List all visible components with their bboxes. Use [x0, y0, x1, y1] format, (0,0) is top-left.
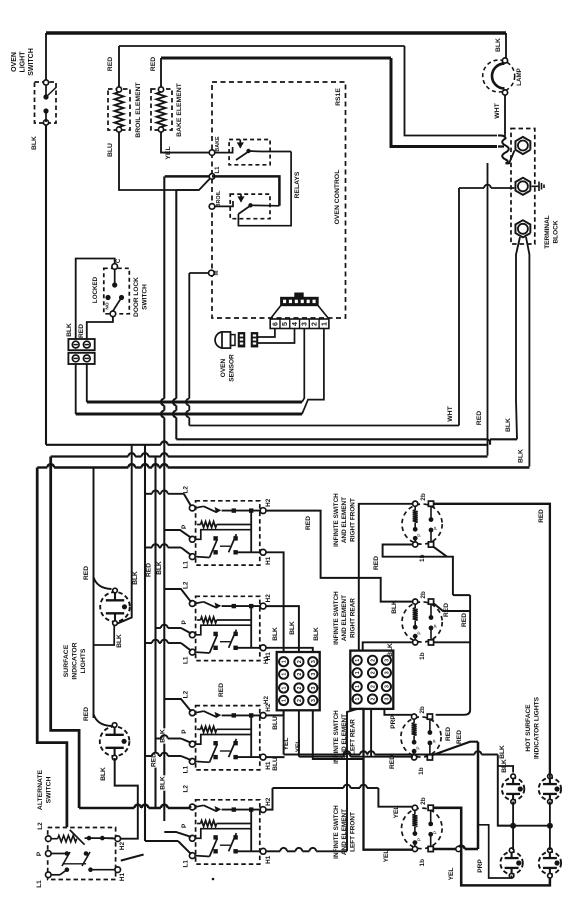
svg-text:BLK: BLK [313, 627, 320, 641]
svg-text:M: M [214, 271, 220, 276]
svg-text:YEL: YEL [383, 850, 390, 863]
indicator light hot surface 3 [500, 852, 522, 874]
svg-text:P: P [432, 739, 438, 742]
wire: RF top-left to plug B col1 [359, 504, 413, 651]
svg-text:HOT SURFACE: HOT SURFACE [525, 704, 532, 752]
wire: lamp top [505, 33, 507, 58]
wire: SW2 L2 feed [164, 589, 191, 602]
svg-text:1b: 1b [418, 767, 425, 775]
oven control connector body [281, 298, 318, 306]
infinite switch LEFT FRONT [196, 800, 260, 864]
svg-text:H1: H1 [119, 872, 126, 881]
contact pair (LEFT REAR) [213, 741, 217, 745]
svg-text:1: 1 [355, 698, 361, 701]
svg-text:BLU: BLU [107, 143, 114, 157]
bus: VB3 BLK (x=164.3) [163, 445, 165, 821]
oven light switch S1 [35, 82, 57, 123]
contact pair (RIGHT FRONT) [213, 632, 217, 636]
door lock switch S2 [104, 268, 130, 314]
svg-text:L1: L1 [183, 561, 190, 569]
terminal 2b (left front) [412, 805, 417, 810]
terminal 1b (right front) [413, 542, 418, 547]
svg-text:3: 3 [384, 659, 390, 662]
svg-text:L2: L2 [183, 785, 190, 793]
wire: terminal 3 split leads [516, 237, 520, 439]
svg-text:SURFACE: SURFACE [63, 644, 70, 677]
wire: LR 1b diagonal to thick riser [433, 742, 478, 755]
svg-text:AND ELEMENT: AND ELEMENT [341, 595, 348, 641]
svg-text:4: 4 [292, 322, 299, 326]
svg-text:P: P [36, 851, 43, 856]
svg-text:L2: L2 [183, 690, 190, 698]
svg-text:BLK: BLK [159, 776, 166, 790]
svg-text:2: 2 [371, 698, 377, 701]
svg-text:YEL: YEL [448, 868, 455, 881]
wire: plug 3 drop [302, 329, 304, 403]
svg-text:TERMINAL: TERMINAL [544, 215, 551, 249]
wire: plug 1 drop [302, 329, 324, 415]
ground symbol [532, 185, 540, 187]
svg-text:P: P [417, 631, 423, 634]
connector block plug A [277, 652, 320, 710]
bus: BLK lower (y=467.5) [37, 466, 47, 468]
wire: connector to black bus [75, 364, 77, 414]
svg-text:LIGHTS: LIGHTS [80, 648, 87, 673]
svg-text:BLU: BLU [272, 716, 279, 730]
svg-text:RED: RED [389, 755, 396, 769]
svg-text:BLK: BLK [499, 745, 506, 759]
svg-text:RED: RED [107, 57, 114, 71]
surface element left front [402, 808, 443, 849]
svg-text:H2: H2 [265, 797, 272, 806]
svg-text:P: P [433, 831, 439, 834]
terminal 1b (left rear) [412, 755, 417, 760]
svg-text:BLK: BLK [156, 561, 163, 575]
wire: RR bottom-right stub [434, 641, 471, 643]
wire: bake feed drop x=391 [391, 58, 497, 147]
svg-text:L2: L2 [37, 822, 44, 830]
wire: surface light 1 bottom down [94, 625, 115, 646]
wire: LF 1b thick chain [433, 848, 458, 851]
svg-text:BLK: BLK [495, 38, 502, 52]
terminal 1b (left front) [412, 846, 417, 851]
svg-text:1: 1 [321, 322, 328, 326]
svg-text:L2: L2 [183, 581, 190, 589]
svg-text:P: P [181, 729, 188, 734]
bus: WHT return (y=425.5) [189, 425, 459, 427]
wire: WHT drop [458, 188, 460, 426]
infinite switch RIGHT FRONT [196, 596, 260, 660]
wire: plug B col2 drop [370, 709, 372, 757]
svg-text:2: 2 [297, 699, 303, 702]
svg-text:RELAYS: RELAYS [294, 171, 301, 198]
svg-text:P: P [181, 619, 188, 624]
svg-text:5: 5 [282, 322, 289, 326]
svg-text:2: 2 [297, 686, 303, 689]
wire: bake feed (y=58) [161, 57, 391, 60]
wire: door lock NO lead [87, 317, 113, 339]
indicator light hot surface 4 [539, 852, 561, 874]
wire: SW2 L1 feed [145, 642, 152, 644]
svg-text:3: 3 [311, 660, 317, 663]
oven control plug P1 [270, 319, 329, 329]
contact row to H2 (RIGHT FRONT) [222, 605, 261, 607]
wire: SW1 P feed [164, 530, 191, 538]
svg-text:L2: L2 [183, 486, 190, 494]
surface element left rear [401, 717, 441, 757]
svg-text:SWITCH: SWITCH [46, 777, 53, 804]
indicator light hot surface 1 [502, 778, 524, 800]
svg-text:BLK: BLK [501, 759, 508, 773]
wire: SW1 L2 feed [145, 493, 152, 495]
svg-text:INFINITE SWITCH: INFINITE SWITCH [333, 591, 340, 645]
alt switch resistor [51, 838, 58, 840]
element sensor column (left front) [430, 810, 432, 824]
svg-text:L1: L1 [36, 880, 43, 888]
svg-text:RED: RED [83, 707, 90, 721]
wire: branch to surface light 1 [94, 577, 112, 589]
internal bridge (RIGHT FRONT) [250, 606, 252, 648]
lamp DS1 (oven lamp) [483, 60, 515, 92]
svg-text:2b: 2b [419, 706, 426, 714]
svg-text:BLK: BLK [100, 767, 107, 781]
wire: broil bottom to L1 node [119, 132, 212, 190]
switch blade (RIGHT FRONT) [195, 602, 203, 604]
wire: broil top lead [118, 46, 120, 87]
wire: terminal 1 strain loops [498, 135, 509, 163]
wire: RR 2b right diagonal [434, 603, 471, 611]
svg-text:BLK: BLK [391, 600, 398, 614]
alt switch middle contacts [65, 851, 70, 856]
wire L1 row (RIGHT FRONT) [195, 651, 209, 654]
svg-text:P: P [433, 624, 439, 627]
svg-text:3: 3 [384, 671, 390, 674]
oven control box (RS1E) [212, 82, 346, 318]
svg-text:RED: RED [305, 516, 312, 530]
svg-text:P: P [417, 533, 423, 536]
svg-text:RS1E: RS1E [335, 88, 342, 106]
svg-text:2b: 2b [420, 797, 427, 805]
stray dot [212, 878, 215, 881]
wire: terminal 2 lead (WHT) [459, 187, 484, 189]
pilot tap from P (RIGHT REAR) [195, 530, 251, 540]
svg-text:BLK: BLK [66, 323, 73, 337]
alt switch bottom contacts [65, 867, 70, 872]
wire: L1 bus drop (x=164.8) [163, 176, 165, 398]
svg-text:BLOCK: BLOCK [552, 220, 559, 243]
svg-text:INFINITE SWITCH: INFINITE SWITCH [333, 710, 340, 764]
bus: staircase B to SW4 L2 (y=808) [79, 807, 134, 810]
svg-text:RED: RED [445, 727, 452, 741]
svg-text:H2: H2 [119, 841, 126, 850]
infinite switch LEFT REAR [196, 706, 260, 770]
terminal 2b (left rear) [412, 714, 417, 719]
pilot resistor (LEFT FRONT) [197, 823, 201, 825]
svg-text:OVEN: OVEN [11, 52, 18, 72]
svg-text:SWITCH: SWITCH [28, 48, 35, 76]
bus: VB1 (x=145) [144, 445, 146, 841]
door lock connector pair [68, 339, 94, 350]
wire: RF bottom-left RED chain [383, 545, 453, 596]
svg-text:OVEN CONTROL: OVEN CONTROL [334, 170, 341, 225]
svg-text:C: C [116, 258, 122, 263]
svg-text:LAMP: LAMP [516, 68, 523, 86]
svg-text:RED: RED [443, 603, 450, 617]
svg-text:INDICATOR LIGHTS: INDICATOR LIGHTS [533, 696, 540, 759]
svg-text:INFINITE SWITCH: INFINITE SWITCH [333, 493, 340, 547]
svg-text:2: 2 [371, 659, 377, 662]
svg-text:BROIL: BROIL [216, 190, 222, 207]
wire: left staircase A [37, 468, 67, 828]
label BLK (VB3 mid) [159, 728, 169, 743]
svg-text:P: P [433, 526, 439, 529]
svg-text:RED: RED [373, 556, 380, 570]
wire: SW4 L1 feed [145, 840, 178, 842]
svg-text:LOCKED: LOCKED [92, 276, 99, 303]
label RED (VB2 lower) [151, 752, 161, 767]
svg-text:1b: 1b [419, 859, 426, 867]
junction dot B [547, 823, 553, 829]
svg-text:P: P [416, 838, 422, 841]
svg-text:2: 2 [371, 671, 377, 674]
bus: broil row to red (y=439.3) [176, 439, 490, 445]
indicator light surface 1 [100, 592, 130, 622]
svg-text:INDICATOR: INDICATOR [72, 642, 79, 679]
relay K1 (bake) [229, 140, 270, 165]
svg-text:1: 1 [282, 699, 288, 702]
svg-text:RIGHT REAR: RIGHT REAR [349, 598, 356, 638]
wire: plug 4 to oven sensor [258, 329, 295, 344]
svg-text:L1: L1 [183, 860, 190, 868]
svg-text:DOOR LOCK: DOOR LOCK [133, 277, 140, 317]
wire: plug A col2 to LR 1b row [298, 710, 300, 756]
contact row to H2 (RIGHT REAR) [222, 510, 261, 512]
wire: RED drop from terminal block [487, 163, 489, 456]
terminal 1b (right rear) [413, 640, 418, 645]
svg-text:AND ELEMENT: AND ELEMENT [341, 497, 348, 543]
svg-text:H2: H2 [263, 695, 270, 703]
svg-text:PRP: PRP [477, 859, 484, 873]
terminal 2b (right rear) [413, 599, 418, 604]
svg-text:RED: RED [461, 613, 468, 627]
bus: oven harness (y=402) [87, 401, 302, 404]
wire: SW2 H1 into plug A col3 [266, 648, 313, 652]
svg-text:2: 2 [371, 685, 377, 688]
wire: hot light col B [549, 772, 551, 778]
wire: SW3 L1 feed [145, 755, 152, 757]
wire L1 row (LEFT REAR) [195, 760, 209, 763]
svg-text:RED: RED [218, 683, 225, 697]
svg-text:P: P [181, 524, 188, 529]
svg-text:BAKE: BAKE [215, 136, 221, 152]
svg-text:BAKE ELEMENT: BAKE ELEMENT [176, 82, 183, 136]
wire: RED drop to LR element [453, 594, 470, 596]
switch blade (LEFT FRONT) [195, 805, 203, 807]
bus: BLK main (y=444.8) [46, 444, 161, 446]
wire: plug A col1 to light feed row [283, 710, 285, 754]
svg-text:3: 3 [311, 699, 317, 702]
pilot tap from P (RIGHT FRONT) [195, 625, 251, 635]
wire: RR bottom-left to plug B [363, 642, 413, 650]
contact pair (RIGHT REAR) [213, 536, 217, 540]
svg-text:1: 1 [355, 659, 361, 662]
svg-text:H1: H1 [263, 655, 270, 663]
wire: oven light switch top [45, 33, 47, 80]
bus: oven harness (y=414) [76, 413, 302, 416]
svg-text:ALTERNATE: ALTERNATE [37, 769, 44, 810]
wire L1 row (LEFT FRONT) [195, 855, 209, 858]
svg-text:2: 2 [312, 322, 319, 326]
svg-text:BLK: BLK [116, 634, 123, 648]
wire: lamp bottom (WHT) [504, 95, 506, 133]
svg-text:H1: H1 [265, 556, 272, 565]
element coil (left rear) [413, 719, 415, 723]
svg-text:BLK: BLK [272, 627, 279, 641]
switch blade (RIGHT REAR) [195, 506, 203, 508]
svg-text:2b: 2b [420, 493, 427, 501]
svg-text:SWITCH: SWITCH [141, 284, 148, 310]
svg-text:OVEN: OVEN [220, 358, 227, 377]
svg-text:PRP: PRP [390, 715, 397, 729]
indicator light hot surface 2 [539, 778, 561, 800]
element coil (left front) [414, 810, 416, 814]
pilot tap from P (LEFT FRONT) [195, 829, 251, 839]
wire: SW1 H1 chain [266, 552, 284, 652]
wire: SW3 L2 feed [164, 699, 191, 712]
internal bridge (RIGHT REAR) [250, 511, 252, 553]
svg-text:P: P [416, 746, 422, 749]
contact pair (LEFT FRONT) [213, 835, 217, 839]
surface element right rear [402, 602, 442, 642]
label BLK (VB3 lower) [159, 775, 169, 790]
internal bridge (LEFT FRONT) [250, 810, 252, 852]
wire: bake top lead [160, 58, 162, 87]
svg-text:L1: L1 [183, 765, 190, 773]
svg-text:NO: NO [105, 302, 111, 309]
wire: RF 2b to RED riser [434, 504, 550, 775]
svg-text:1: 1 [355, 685, 361, 688]
switch blade (LEFT REAR) [195, 711, 203, 713]
wire: broil feed drop x=404.5 [405, 46, 498, 136]
svg-text:3: 3 [384, 685, 390, 688]
wire: SW2 H2 chain [266, 606, 299, 652]
svg-text:YEL: YEL [283, 738, 290, 751]
wire: plug A col3 short row [313, 710, 364, 759]
wire: SW4 P feed [164, 832, 191, 837]
wire: plug B col3 to LR top-left [384, 709, 411, 715]
wire: surface light 1 bottom to BLK riser [118, 445, 132, 624]
wire: connector to red bus [86, 364, 88, 402]
wire: SW1 H2 chain to RR top-left [266, 511, 413, 602]
svg-text:2: 2 [297, 660, 303, 663]
svg-text:BLU: BLU [272, 757, 279, 771]
broil element R-broil [108, 89, 130, 130]
svg-text:RED: RED [456, 730, 463, 744]
bus: RED main (y=456.5) [51, 455, 129, 457]
svg-text:2: 2 [297, 673, 303, 676]
element sensor column (right front) [430, 506, 432, 519]
svg-text:BLK: BLK [505, 418, 512, 432]
wire: red feed to surface lights [93, 468, 95, 719]
pilot resistor (RIGHT REAR) [197, 524, 201, 526]
connector block plug B [350, 651, 393, 709]
svg-text:L1: L1 [215, 166, 221, 174]
svg-text:RED: RED [476, 411, 483, 425]
svg-text:RED: RED [83, 566, 90, 580]
wire: SW1 L1 feed [145, 547, 152, 549]
svg-text:6: 6 [272, 322, 279, 326]
svg-text:RED: RED [78, 324, 85, 338]
svg-text:WHT: WHT [447, 405, 454, 421]
element sensor column (right rear) [430, 604, 432, 617]
svg-text:BLK: BLK [289, 621, 296, 635]
element sensor column (left rear) [429, 719, 431, 732]
svg-text:1: 1 [282, 673, 288, 676]
relay K2 (broil) [230, 194, 270, 219]
wire: M lead to WHT bus [189, 272, 208, 274]
svg-text:L1: L1 [183, 656, 190, 664]
node L1 (oven control) [209, 174, 215, 180]
wire: broil-row drop (x=176.3) [176, 189, 199, 191]
wire: broil feed (y=46) [119, 45, 405, 47]
wire: hot light 1 riser [498, 766, 513, 773]
svg-text:LIGHT: LIGHT [20, 51, 27, 73]
svg-text:RED: RED [538, 509, 545, 523]
wire: junction bar [498, 825, 550, 827]
wire L1 row (RIGHT REAR) [195, 556, 209, 559]
alt switch blade [70, 830, 85, 845]
wire: top feed L1 (y=33) [46, 31, 506, 34]
svg-text:3: 3 [384, 698, 390, 701]
wire: plug 6 to oven sensor [258, 329, 275, 338]
alternate switch S3 [48, 828, 116, 880]
bus: VB2 RED (x=155.5) [154, 457, 156, 809]
element coil (right rear) [414, 604, 416, 608]
contact row to H2 (LEFT FRONT) [222, 809, 261, 811]
svg-text:SENSOR: SENSOR [228, 354, 235, 382]
svg-text:3: 3 [311, 673, 317, 676]
svg-text:1: 1 [282, 660, 288, 663]
svg-text:H2: H2 [265, 498, 272, 507]
node M (oven control) [209, 270, 215, 276]
leader line (alt switch) [121, 855, 144, 861]
internal bridge (LEFT REAR) [250, 715, 252, 757]
wire: bake bottom to BAKE relay terminal [161, 132, 210, 153]
svg-text:H2: H2 [265, 594, 272, 603]
svg-text:1b: 1b [419, 652, 426, 660]
surface element right front [402, 504, 442, 544]
wire: surface light 2 bottom to alt switch H2 [115, 758, 138, 839]
contact row to H2 (LEFT REAR) [222, 714, 261, 716]
svg-text:H1: H1 [265, 855, 272, 864]
svg-text:WHT: WHT [494, 102, 501, 118]
svg-text:1: 1 [282, 686, 288, 689]
wire: SW4 H1 chain [266, 850, 280, 852]
wire: SW4 H2 chain to LF top-left [266, 788, 273, 810]
wire: oven light switch to black bus [45, 125, 47, 445]
svg-text:LEFT FRONT: LEFT FRONT [349, 812, 356, 852]
wire: relay K1 output loop [238, 152, 291, 226]
wire: SW2 P feed [156, 627, 161, 629]
wire: PRP loop (hot light 3) [478, 825, 512, 878]
pilot tap from P (LEFT REAR) [195, 735, 251, 745]
wire: left staircase B [51, 457, 79, 809]
svg-text:1b: 1b [419, 554, 426, 562]
svg-text:YEL: YEL [393, 806, 400, 819]
svg-text:BLK: BLK [132, 571, 139, 585]
terminal block TB1 [511, 129, 535, 245]
wire: SW3 H1 stub to row [266, 756, 285, 758]
